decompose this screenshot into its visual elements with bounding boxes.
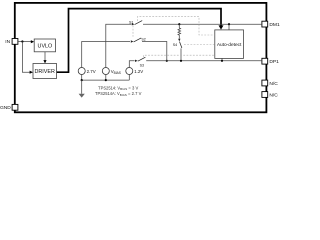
chip outline — [15, 3, 267, 112]
arrowhead into DRIVER — [30, 71, 33, 74]
pin IN — [12, 39, 18, 45]
svg-text:Auto-detect: Auto-detect — [217, 42, 242, 48]
voltage source 1.2V — [126, 68, 133, 75]
dashed control to S1 — [138, 17, 215, 35]
resistor — [178, 24, 181, 38]
svg-text:S3: S3 — [140, 64, 144, 68]
wire UVLO to DRIVER — [44, 52, 46, 61]
wire IN pin to UVLO — [18, 41, 31, 43]
svg-text:DP1: DP1 — [269, 59, 279, 65]
ground — [81, 80, 83, 94]
svg-text:DRIVER: DRIVER — [35, 69, 55, 75]
switch S4 — [178, 39, 180, 42]
switch S3 — [135, 60, 138, 62]
pin DM1 — [262, 21, 268, 27]
svg-text:DM1: DM1 — [269, 22, 280, 28]
node bus junction middle — [105, 79, 107, 81]
block UVLO — [34, 39, 55, 52]
wire stub DM1 line to Auto-detect top — [228, 24, 230, 30]
node resistor top junction on DM1 line — [178, 23, 180, 25]
wire stub Auto-detect bottom to DP1 line — [221, 58, 223, 60]
node stub/DP1 junction — [221, 60, 223, 62]
svg-text:UVLO: UVLO — [38, 43, 53, 49]
wire bottom bus — [82, 79, 130, 81]
dashed control to S2 — [132, 26, 134, 37]
voltage source 2.7V — [78, 68, 85, 75]
svg-text:GND: GND — [0, 105, 11, 111]
svg-text:IN: IN — [5, 39, 10, 45]
wire IN rail from DRIVER output up and across top to Auto-detect — [57, 9, 222, 73]
arrowhead into Auto-detect top — [219, 25, 224, 29]
wire DP1 line — [146, 60, 262, 62]
svg-text:1.2V: 1.2V — [134, 69, 143, 74]
pin DP1 — [262, 58, 268, 64]
wire S2 to DP1 line — [142, 42, 167, 61]
wire VBIAS riser to S1 — [106, 24, 132, 67]
node S2/DP1 junction — [166, 60, 168, 62]
wire source stubs to bottom bus — [81, 75, 83, 81]
node bus junction left — [81, 79, 83, 81]
node S4/DP1 junction — [180, 60, 182, 62]
block Auto-detect — [215, 30, 244, 59]
dashed control to S3 — [144, 55, 215, 57]
wire 1.2V riser to S3 — [129, 61, 134, 68]
pin GND — [12, 104, 18, 110]
block DRIVER — [33, 64, 57, 79]
pin N/C 1 — [262, 80, 268, 86]
arrowhead into UVLO — [31, 40, 34, 43]
wire S4 to DP1 line — [180, 48, 182, 60]
node junction on IN wire — [21, 40, 23, 42]
svg-text:S4: S4 — [173, 43, 177, 47]
svg-text:S1: S1 — [129, 20, 133, 24]
dashed control to S4 — [184, 44, 215, 46]
wire IN branch down to DRIVER — [22, 42, 30, 73]
svg-text:TPS2514A: VBIAS = 2.7 V: TPS2514A: VBIAS = 2.7 V — [95, 91, 142, 97]
node DM1 stub junction — [228, 23, 230, 25]
svg-text:N/C: N/C — [269, 81, 278, 87]
switch S1 — [132, 23, 135, 25]
pin N/C 2 — [262, 92, 268, 98]
wire DM1 line — [143, 23, 262, 25]
wire 2.7V riser to S2 — [82, 42, 130, 68]
switch S2 — [131, 40, 134, 42]
svg-text:N/C: N/C — [269, 92, 278, 98]
voltage source VBIAS — [102, 68, 109, 75]
svg-text:2.7V: 2.7V — [87, 69, 96, 74]
svg-text:S2: S2 — [141, 38, 145, 42]
svg-text:VBIAS: VBIAS — [111, 69, 121, 75]
arrowhead into DRIVER top — [43, 60, 46, 63]
